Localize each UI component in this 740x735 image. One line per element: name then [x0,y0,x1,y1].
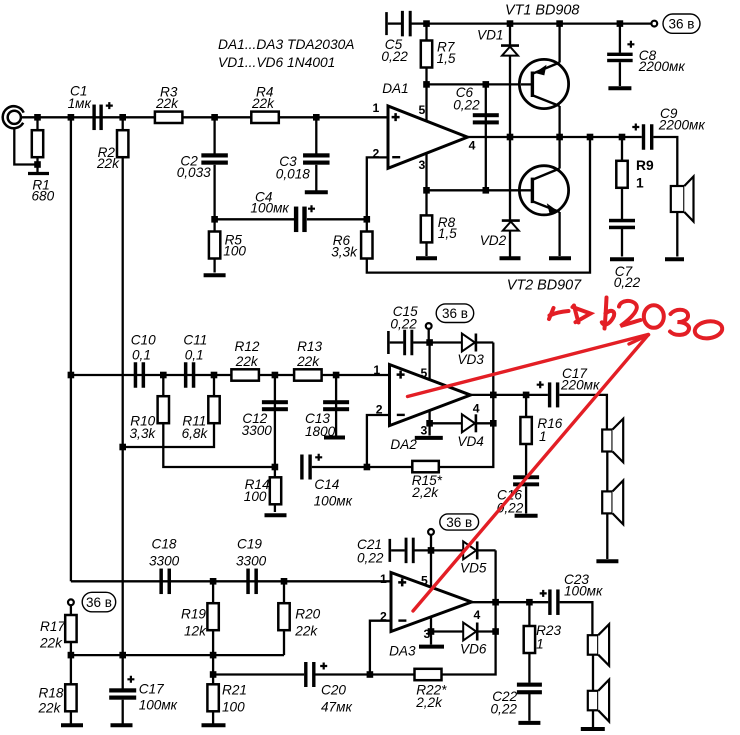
svg-text:22k: 22k [39,635,63,650]
svg-text:VD6: VD6 [460,642,487,657]
svg-text:5: 5 [421,573,428,587]
svg-text:3300: 3300 [149,553,180,568]
svg-text:22k: 22k [38,700,62,715]
svg-text:6,8k: 6,8k [182,426,209,441]
svg-text:R21: R21 [222,683,247,698]
svg-text:2200мк: 2200мк [658,117,706,132]
svg-text:47мк: 47мк [321,699,352,714]
svg-text:C14: C14 [314,477,339,492]
svg-text:680: 680 [32,189,55,204]
svg-text:VD5: VD5 [460,561,487,576]
svg-text:12k: 12k [184,624,207,639]
svg-text:36 в: 36 в [669,16,695,31]
svg-text:1: 1 [380,572,387,586]
svg-text:2: 2 [376,403,383,417]
svg-text:R17: R17 [40,619,65,634]
svg-text:R18: R18 [39,685,64,700]
svg-text:3: 3 [419,158,426,172]
svg-text:22k: 22k [251,96,275,111]
svg-text:1: 1 [539,429,547,444]
svg-text:3: 3 [421,423,428,437]
svg-text:1: 1 [373,363,380,377]
svg-text:0,22: 0,22 [453,98,480,113]
svg-text:VD2: VD2 [480,233,507,248]
svg-text:1,5: 1,5 [438,226,457,241]
svg-text:4: 4 [474,608,481,622]
svg-text:36 в: 36 в [446,515,472,530]
svg-text:2,2k: 2,2k [415,695,443,710]
svg-text:R20: R20 [295,607,320,622]
svg-text:1: 1 [373,101,380,115]
svg-text:R12: R12 [235,339,260,354]
svg-text:R19: R19 [181,607,206,622]
svg-text:DA1...DA3 TDA2030A: DA1...DA3 TDA2030A [218,37,355,52]
svg-text:0,22: 0,22 [614,275,641,290]
svg-text:VT1 BD908: VT1 BD908 [505,2,579,18]
svg-text:0,22: 0,22 [381,49,408,64]
svg-text:0,018: 0,018 [276,166,310,181]
svg-text:100: 100 [222,699,245,714]
svg-text:3,3k: 3,3k [130,426,157,441]
svg-text:0,22: 0,22 [357,551,384,566]
svg-text:36 в: 36 в [442,306,468,321]
svg-text:C17: C17 [139,682,164,697]
svg-text:VD3: VD3 [457,352,484,367]
svg-text:C10: C10 [131,332,156,347]
svg-text:4: 4 [469,139,476,153]
svg-text:1,5: 1,5 [437,51,456,66]
svg-text:2200мк: 2200мк [638,59,686,74]
svg-text:100мк: 100мк [314,493,353,508]
svg-text:1800: 1800 [305,424,336,439]
svg-text:0,22: 0,22 [390,316,417,331]
svg-text:3: 3 [424,627,431,641]
svg-text:36 в: 36 в [86,595,112,610]
svg-text:22k: 22k [235,354,259,369]
svg-text:VD1...VD6 1N4001: VD1...VD6 1N4001 [218,55,335,70]
svg-text:C20: C20 [321,683,346,698]
svg-text:0,22: 0,22 [491,702,518,717]
svg-text:22k: 22k [294,624,318,639]
svg-text:100мк: 100мк [139,697,178,712]
svg-text:22k: 22k [296,354,320,369]
svg-text:3,3k: 3,3k [331,244,358,259]
svg-text:2,2k: 2,2k [411,485,439,500]
svg-text:2: 2 [373,146,380,160]
svg-text:VD1: VD1 [477,28,503,43]
svg-text:100мк: 100мк [564,584,603,599]
svg-text:5: 5 [419,103,426,117]
svg-text:3300: 3300 [242,423,273,438]
svg-text:R9: R9 [636,158,654,173]
svg-text:DA3: DA3 [389,643,416,658]
svg-text:1: 1 [536,637,544,652]
svg-text:22k: 22k [155,96,179,111]
svg-text:DA1: DA1 [382,81,408,96]
svg-text:220мк: 220мк [560,377,600,392]
svg-text:100: 100 [244,489,267,504]
svg-text:100мк: 100мк [250,201,289,216]
svg-text:1мк: 1мк [68,96,92,111]
svg-text:100: 100 [223,243,246,258]
svg-text:1: 1 [636,176,644,191]
svg-text:DA2: DA2 [390,437,417,452]
svg-text:R13: R13 [297,339,322,354]
svg-text:3300: 3300 [236,553,267,568]
svg-text:0,1: 0,1 [185,347,204,362]
svg-text:0,1: 0,1 [132,347,151,362]
svg-text:C11: C11 [183,332,207,347]
svg-text:VD4: VD4 [457,434,484,449]
svg-text:4: 4 [473,401,480,415]
svg-text:VT2 BD907: VT2 BD907 [507,277,582,293]
svg-text:C19: C19 [237,536,262,551]
svg-text:2: 2 [380,609,387,623]
svg-text:5: 5 [421,366,428,380]
svg-text:C18: C18 [152,536,177,551]
svg-text:22k: 22k [96,156,120,171]
svg-text:0,033: 0,033 [177,165,211,180]
